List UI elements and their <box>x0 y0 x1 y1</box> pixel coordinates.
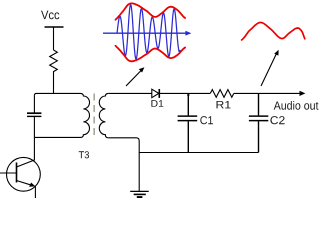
arrow to AM waveform <box>126 70 142 86</box>
label T3 <box>79 151 89 158</box>
label C1 <box>200 116 213 124</box>
label C2 <box>270 116 284 124</box>
label Audio out <box>274 101 319 110</box>
transistor Q1 body <box>7 157 41 191</box>
Vcc power bar <box>45 26 64 28</box>
transformer T3 primary winding <box>81 93 90 137</box>
label R1 <box>217 101 231 108</box>
wire emitter lead <box>34 186 36 198</box>
wire secondary bottom <box>108 138 139 153</box>
capacitor (tank) top plate <box>27 112 41 114</box>
AM waveform bottom envelope (red) <box>116 46 186 62</box>
wire C2 lower leg <box>258 121 260 152</box>
wire collector to tank <box>17 137 35 167</box>
wire secondary top to diode <box>108 92 152 94</box>
diode D1 <box>152 89 159 98</box>
Vcc label <box>41 11 59 20</box>
arrow to audio waveform <box>261 54 277 87</box>
demodulated audio waveform (red) <box>242 23 305 41</box>
tank top wire <box>34 93 80 95</box>
wire Vcc bar to resistor <box>53 27 55 50</box>
wire C1 lower leg <box>187 121 189 152</box>
capacitor C2 top plate <box>249 115 268 117</box>
capacitor C1 bottom plate <box>178 120 198 122</box>
wire C1 upper leg <box>187 93 189 115</box>
capacitor (tank) bottom plate <box>27 115 41 117</box>
transformer T3 secondary winding <box>99 93 108 137</box>
node C1 tap <box>187 93 189 96</box>
resistor (bias, unlabelled) <box>50 50 58 75</box>
resistor R1 <box>210 90 234 98</box>
node C2 tap / wire C2 upper leg <box>258 93 260 115</box>
AM waveform top envelope (red) <box>116 3 186 19</box>
capacitor C2 bottom plate <box>249 120 268 122</box>
label D1 <box>151 100 163 107</box>
tank left wire upper <box>33 95 35 112</box>
output arrowhead <box>300 91 306 96</box>
transformer T3 core (dashed) <box>93 94 95 138</box>
AM waveform axis arrowhead <box>185 31 191 36</box>
wire ground stem <box>138 153 140 192</box>
wire ground rail <box>139 152 258 154</box>
wire R1 to output arrow <box>234 92 300 94</box>
transistor Q1 base bar <box>16 163 18 183</box>
wire base lead <box>0 172 17 174</box>
AM waveform axis (blue) <box>103 32 188 34</box>
wire diode to R1 <box>159 92 210 94</box>
ground symbol <box>130 190 149 192</box>
AM waveform carrier (blue) <box>117 5 180 59</box>
wire resistor to tank top <box>53 75 55 93</box>
capacitor C1 top plate <box>178 115 198 117</box>
tank left wire lower <box>33 117 35 137</box>
tank bottom wire <box>34 136 80 138</box>
transistor Q1 emitter with arrow <box>17 181 32 186</box>
